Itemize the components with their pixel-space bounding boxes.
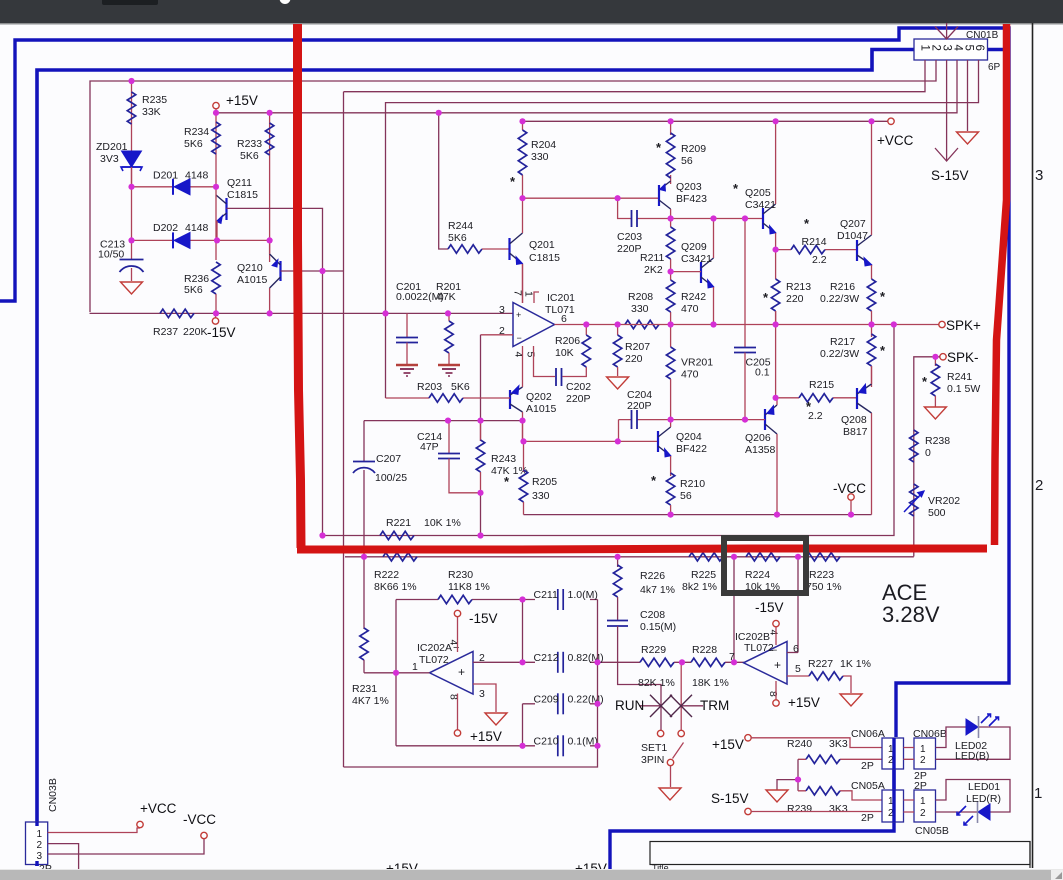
- junction (522.5,745.8): [519, 743, 525, 749]
- red marker right vertical: [995, 24, 1007, 545]
- wire R214 line: [776, 249, 857, 251]
- ground pin3: [485, 713, 507, 725]
- svg-text:CN01B: CN01B: [966, 30, 999, 41]
- junction (448,313.4): [445, 310, 451, 316]
- wire x343 vertical (pin1 net): [343, 92, 345, 767]
- toolbar button remnant: [102, 0, 158, 5]
- wire Q209 base: [671, 271, 701, 273]
- svg-text:1: 1: [1034, 785, 1042, 802]
- capacitor C212: [557, 652, 559, 673]
- svg-text:3.28V: 3.28V: [882, 602, 940, 627]
- wire pin4 to -15V: [775, 627, 777, 645]
- svg-text:R233: R233: [237, 138, 262, 150]
- junction (935.4,356.8): [932, 354, 938, 360]
- svg-text:8: 8: [767, 691, 779, 697]
- svg-text:R206: R206: [555, 335, 580, 347]
- svg-text:R224: R224: [745, 569, 770, 581]
- connector CN01B: [914, 39, 988, 60]
- svg-text:R214: R214: [802, 236, 827, 248]
- junction (734,556.8): [731, 554, 737, 560]
- svg-text:330: 330: [532, 490, 550, 502]
- resistor R236: [215, 187, 217, 260]
- wire Q211 emitter down: [216, 221, 218, 240]
- wire pin5 R227 line: [787, 676, 851, 693]
- svg-text:2P: 2P: [914, 780, 927, 792]
- svg-text:R238: R238: [925, 435, 950, 447]
- junction (871.5,324.5): [868, 321, 874, 327]
- svg-text:C207: C207: [376, 453, 401, 465]
- svg-text:5: 5: [963, 45, 975, 51]
- wire y421 line: [364, 420, 523, 422]
- connector CN05A: [882, 790, 904, 822]
- wire Q205 collector to +VCC: [775, 121, 777, 204]
- wire Q211 base right: [227, 208, 323, 535]
- ground pin5: [957, 132, 979, 144]
- svg-text:TL072: TL072: [744, 642, 774, 654]
- svg-text:R208: R208: [628, 291, 653, 303]
- node +VCC terminal: [888, 118, 894, 124]
- svg-text:B817: B817: [843, 426, 868, 438]
- resistor R213 column: [775, 250, 777, 279]
- svg-text:2: 2: [930, 45, 942, 51]
- svg-text:+: +: [516, 310, 521, 320]
- svg-text:0.22/3W: 0.22/3W: [820, 293, 859, 305]
- svg-text:2: 2: [920, 755, 926, 766]
- resistor R216 column: [871, 265, 873, 279]
- wire Q204 base line: [523, 440, 659, 442]
- svg-text:56: 56: [680, 490, 692, 502]
- svg-text:+15V: +15V: [470, 729, 502, 744]
- wire R240/R239 mid column: [797, 759, 799, 791]
- wire pin3 to ground: [473, 684, 496, 712]
- wire C202 loop: [534, 346, 587, 377]
- svg-text:R223: R223: [809, 569, 834, 581]
- wire -VCC rail y=515: [524, 514, 872, 516]
- svg-text:2: 2: [37, 840, 43, 851]
- svg-text:IC202A: IC202A: [417, 642, 452, 654]
- bus: outer loop left/top/right: [0, 28, 1009, 737]
- svg-text:1: 1: [920, 744, 926, 755]
- wire Q203 collector to C203 line: [670, 209, 672, 219]
- junction (385.5,313.4): [382, 310, 388, 316]
- svg-text:CN05A: CN05A: [851, 780, 885, 792]
- svg-text:R226: R226: [640, 570, 665, 582]
- svg-text:LED(R): LED(R): [966, 793, 1001, 805]
- junction (670.6,324.5): [668, 321, 674, 327]
- wire pin5 to ground: [967, 60, 969, 131]
- wire Q205 emitter to R214 node: [775, 233, 777, 250]
- svg-text:Q210: Q210: [237, 262, 263, 274]
- svg-text:5K6: 5K6: [184, 284, 203, 296]
- svg-text:82K 1%: 82K 1%: [638, 677, 675, 689]
- svg-text:220P: 220P: [566, 393, 591, 405]
- wire R235 column: [131, 81, 133, 187]
- wire pin3 S-15V arrow: [946, 60, 948, 160]
- transistor Q210 A1015: [270, 254, 281, 288]
- wire R215 line: [776, 397, 857, 399]
- junction (131.5,81): [128, 78, 134, 84]
- svg-text:+VCC: +VCC: [877, 133, 914, 148]
- op-amp IC201 TL071: [513, 303, 555, 347]
- node SPK- terminal: [940, 354, 946, 360]
- svg-text:R234: R234: [184, 126, 209, 138]
- wire C201 drop: [406, 313, 408, 337]
- transistor Q207 D1047: [857, 235, 872, 266]
- resistor R230: [438, 595, 472, 603]
- svg-text:5K6: 5K6: [184, 138, 203, 150]
- wire IC202A output: [364, 672, 430, 674]
- transistor Q201 C1815: [510, 233, 523, 265]
- svg-text:LED01: LED01: [968, 781, 1000, 793]
- svg-text:0.1: 0.1: [755, 367, 770, 379]
- svg-text:33K: 33K: [142, 106, 161, 118]
- svg-text:750 1%: 750 1%: [806, 581, 842, 593]
- svg-text:SPK+: SPK+: [946, 318, 981, 333]
- svg-text:5K6: 5K6: [448, 232, 467, 244]
- junction (617.6,556.8): [615, 554, 621, 560]
- connector CN06B: [914, 738, 936, 769]
- junction (798,779.6): [795, 777, 801, 783]
- wire pin4 lead to Q202: [522, 346, 524, 387]
- capacitor C210: [557, 735, 559, 756]
- wire R243 bottom to y535: [480, 493, 482, 536]
- resistor R223: [806, 553, 840, 561]
- junction (893.8,324.5): [891, 321, 897, 327]
- wire Q210 base right: [281, 270, 344, 272]
- wire SPK- line: [914, 357, 940, 557]
- wire C210 line: [396, 745, 598, 747]
- svg-text:56: 56: [681, 155, 693, 167]
- transistor Q202 A1015: [510, 386, 523, 413]
- resistor VR201 column: [670, 325, 672, 348]
- svg-text:RUN: RUN: [615, 698, 644, 713]
- svg-text:Q201: Q201: [529, 239, 555, 251]
- svg-text:Q207: Q207: [840, 218, 866, 230]
- bus: CN01B to right rail: [987, 48, 1009, 51]
- svg-text:6: 6: [561, 313, 567, 325]
- resistor R238: [910, 430, 918, 462]
- svg-text:C208: C208: [640, 609, 665, 621]
- svg-text:Q208: Q208: [841, 414, 867, 426]
- svg-text:A1015: A1015: [526, 403, 557, 415]
- diode D201: [173, 179, 190, 195]
- svg-text:1: 1: [919, 45, 931, 51]
- junction (448,420.6): [445, 418, 451, 424]
- svg-text:5K6: 5K6: [451, 381, 470, 393]
- junction (522.5,662.3): [519, 659, 525, 665]
- wire +15V stub: [215, 109, 217, 113]
- svg-text:4: 4: [952, 45, 964, 52]
- svg-text:470: 470: [681, 303, 699, 315]
- svg-text:0.15(M): 0.15(M): [640, 621, 676, 633]
- svg-text:2.2: 2.2: [812, 254, 827, 266]
- resistor R206: [585, 325, 587, 336]
- LED LED02: [966, 714, 999, 738]
- junction (480.5,492.8): [477, 490, 483, 496]
- resistor R225: [689, 553, 723, 561]
- junction (851,514.6): [848, 511, 854, 517]
- svg-text:10K 1%: 10K 1%: [424, 517, 461, 529]
- svg-text:R229: R229: [641, 644, 666, 656]
- resistor R237: [160, 309, 194, 317]
- bus: inner border to CN01B: [37, 50, 914, 867]
- junction (798,556.8): [795, 554, 801, 560]
- svg-text:+VCC: +VCC: [140, 801, 177, 816]
- svg-text:4148: 4148: [185, 170, 209, 182]
- svg-text:+15V: +15V: [788, 695, 820, 710]
- svg-text:Q206: Q206: [745, 432, 771, 444]
- svg-text:4: 4: [768, 630, 780, 636]
- title block: [650, 842, 1030, 865]
- wire R233 drop: [269, 113, 271, 262]
- junction (131.5,186.8): [128, 184, 134, 190]
- wire R213/R215 mid column: [775, 311, 777, 398]
- wire ZD201 to D-line: [131, 167, 133, 240]
- svg-text:4K7 1%: 4K7 1%: [352, 695, 389, 707]
- svg-text:C1815: C1815: [529, 252, 560, 264]
- svg-text:4148: 4148: [185, 222, 209, 234]
- wire pin4 (+15V rail): [216, 60, 957, 113]
- resistor R221: [380, 531, 414, 539]
- ground C213: [121, 282, 143, 294]
- wire Q208 emitter to -VCC rail: [871, 413, 873, 515]
- wire pin1 stub elbow: [534, 292, 539, 303]
- svg-text:R239: R239: [787, 803, 812, 815]
- wire pin8 to +15V: [775, 681, 777, 700]
- svg-text:R203: R203: [417, 381, 442, 393]
- svg-text:A1358: A1358: [745, 444, 776, 456]
- svg-text:2P: 2P: [861, 760, 874, 772]
- junction (682,662.3): [679, 659, 685, 665]
- wire LED01 loop: [936, 780, 1011, 813]
- top toolbar: [0, 0, 1063, 23]
- junction (216,313.4): [213, 310, 219, 316]
- wire -15V rail: [90, 312, 514, 314]
- junction (617.6,324.5): [615, 321, 621, 327]
- bus overlay through CN06A/CN05A: [892, 738, 895, 822]
- wire pin3 to -VCC: [48, 839, 204, 854]
- junction (522.5,121.3): [519, 118, 525, 124]
- switch TRM: [680, 662, 682, 730]
- svg-text:11K8 1%: 11K8 1%: [448, 581, 490, 593]
- switch lever: [673, 743, 684, 759]
- svg-text:6P: 6P: [988, 62, 1001, 73]
- junction (522.5,420.6): [519, 418, 525, 424]
- svg-text:3K3: 3K3: [829, 738, 848, 750]
- wire D202 line: [132, 239, 270, 241]
- svg-text:C210: C210: [534, 735, 559, 747]
- svg-text:C203: C203: [617, 231, 642, 243]
- svg-text:R244: R244: [448, 220, 473, 232]
- bus overlay through CN03B: [35, 822, 38, 866]
- junction (775.6,121.3): [773, 118, 779, 124]
- svg-text:Q209: Q209: [681, 241, 707, 253]
- resistor R231: [363, 557, 365, 629]
- ground R201: [438, 365, 460, 376]
- svg-text:3: 3: [941, 45, 953, 51]
- resistor R215: [799, 394, 833, 402]
- op-amp IC202B TL072: [744, 642, 788, 685]
- scrollbar arrow: [1055, 872, 1062, 879]
- svg-text:BF422: BF422: [676, 443, 707, 455]
- svg-text:470: 470: [681, 369, 699, 381]
- resistor R235: [127, 92, 135, 124]
- svg-text:6: 6: [793, 643, 799, 655]
- resistor R217 column: [871, 325, 873, 338]
- capacitor C204: [631, 410, 633, 429]
- resistor R228: [691, 658, 725, 666]
- svg-text:1: 1: [412, 661, 418, 673]
- svg-text:6: 6: [973, 45, 985, 51]
- svg-text:500: 500: [928, 507, 946, 519]
- svg-text:R235: R235: [142, 94, 167, 106]
- junction (775.6,397.8): [773, 395, 779, 401]
- transistor Q209 C3421: [701, 258, 714, 288]
- wire R230 line y599: [396, 599, 598, 601]
- resistor R242 column: [670, 272, 672, 325]
- svg-text:47P: 47P: [420, 441, 439, 453]
- junction (586.3,324.5): [583, 321, 589, 327]
- wire D201 line: [132, 186, 217, 188]
- wire pin6 from R224 tap: [787, 652, 798, 654]
- wire pin2 down: [48, 844, 79, 869]
- svg-text:18K 1%: 18K 1%: [692, 677, 729, 689]
- svg-text:-15V: -15V: [755, 600, 784, 615]
- junction (438.7,112.8): [436, 110, 442, 116]
- wire S-15V to CN05A pin2: [751, 811, 882, 813]
- wire pin1 to +VCC: [48, 828, 140, 833]
- resistor R241: [934, 357, 936, 366]
- svg-text:SPK-: SPK-: [947, 350, 979, 365]
- svg-text:A1015: A1015: [237, 274, 268, 286]
- svg-text:220K: 220K: [183, 326, 208, 338]
- wire C209 line: [523, 703, 598, 705]
- svg-text:R209: R209: [681, 143, 706, 155]
- asterisk marks: [504, 140, 928, 489]
- junction (734,662.3): [731, 659, 737, 665]
- wire pin1: [344, 60, 926, 92]
- transistor Q203 BF423: [659, 181, 671, 209]
- node S-15V terminal: [745, 808, 751, 814]
- capacitor C214: [448, 421, 450, 453]
- toolbar white circle remnant: [280, 0, 291, 4]
- svg-text:5: 5: [525, 352, 537, 358]
- svg-text:3: 3: [479, 688, 485, 700]
- junction (670.6,121.3): [668, 118, 674, 124]
- transistor Q211 C1815: [216, 195, 227, 224]
- capacitor C201: [396, 337, 418, 339]
- wire Q209 collector/emitter: [713, 219, 715, 325]
- wire C204 left drop: [618, 420, 620, 442]
- junction (745,218.5): [742, 215, 748, 221]
- junction (396,672.8): [393, 670, 399, 676]
- LED LED01: [957, 801, 990, 825]
- svg-text:CN06A: CN06A: [851, 728, 885, 740]
- ground mid: [766, 790, 788, 802]
- svg-text:4k7 1%: 4k7 1%: [640, 584, 675, 596]
- svg-text:R230: R230: [448, 569, 473, 581]
- wire pin2 line / C212 net: [473, 661, 744, 663]
- svg-text:R207: R207: [625, 341, 650, 353]
- svg-text:TRM: TRM: [700, 698, 729, 713]
- junction (670.6,514.6): [668, 511, 674, 517]
- wire +VCC rail: [523, 120, 889, 122]
- junction (775.6,324.5): [773, 321, 779, 327]
- junction (269.6,313.4): [267, 310, 273, 316]
- capacitor C207 (polarized): [363, 421, 365, 461]
- transistor Q205 C3421: [763, 204, 776, 234]
- wire cap bank left bus: [522, 600, 524, 746]
- svg-text:R227: R227: [808, 658, 833, 670]
- capacitor C203: [631, 210, 633, 227]
- svg-text:D202: D202: [153, 222, 178, 234]
- connector CN03B: [26, 822, 48, 865]
- svg-text:47K: 47K: [437, 291, 456, 303]
- svg-text:5K6: 5K6: [240, 150, 259, 162]
- transistor Q208 B817: [857, 384, 872, 413]
- svg-text:C211: C211: [534, 589, 558, 601]
- svg-text:D1047: D1047: [837, 230, 868, 242]
- svg-text:R217: R217: [830, 336, 855, 348]
- svg-text:R221: R221: [386, 517, 411, 529]
- junction (480.5,535.5): [477, 532, 483, 538]
- ground R227: [840, 694, 862, 706]
- wire R244 branch: [439, 113, 448, 249]
- wire row y557: [345, 556, 914, 558]
- junction (523.5,441.4): [520, 438, 526, 444]
- sheet frame right edge: [1032, 23, 1034, 868]
- capacitor C209: [557, 693, 559, 714]
- svg-text:0.1 5W: 0.1 5W: [947, 383, 980, 395]
- svg-text:C202: C202: [566, 381, 591, 393]
- svg-text:Q204: Q204: [676, 431, 702, 443]
- wire output rail y=325: [555, 324, 873, 326]
- op-amp IC202A TL072: [430, 642, 474, 694]
- svg-text:CN06B: CN06B: [913, 728, 947, 740]
- resistor R244: [448, 245, 482, 253]
- wire Q204 collector to node 420: [670, 420, 672, 427]
- svg-text:3: 3: [499, 304, 505, 316]
- svg-text:TL071: TL071: [545, 304, 575, 316]
- junction (131.5,240.4): [128, 237, 134, 243]
- wire R234 column: [215, 113, 217, 187]
- junction (216,112.8): [213, 110, 219, 116]
- svg-text:R215: R215: [809, 379, 834, 391]
- resistor R229: [640, 658, 674, 666]
- capacitor C213 (polarized): [131, 240, 133, 259]
- svg-text:1: 1: [37, 829, 43, 840]
- svg-text:−: −: [517, 333, 522, 343]
- resistor R226: [617, 557, 619, 567]
- svg-text:CN05B: CN05B: [915, 825, 949, 837]
- svg-text:Q211: Q211: [227, 177, 252, 189]
- svg-text:R242: R242: [681, 291, 706, 303]
- svg-text:-15V: -15V: [207, 325, 236, 340]
- svg-text:1.0(M): 1.0(M): [568, 589, 598, 601]
- svg-text:D201: D201: [153, 170, 178, 182]
- wire R244 to Q201 base: [482, 248, 510, 250]
- wire pin2: [90, 60, 936, 312]
- svg-text:Q205: Q205: [745, 187, 771, 199]
- wire feedback column x480: [480, 335, 482, 441]
- node SPK+: [872, 324, 939, 326]
- wire Q206 base line y420: [619, 419, 766, 421]
- svg-text:-15V: -15V: [469, 611, 498, 626]
- svg-text:10/50: 10/50: [98, 249, 124, 261]
- junction (597.5,745.8): [594, 743, 600, 749]
- ground C201: [396, 365, 418, 376]
- svg-text:R211: R211: [640, 252, 664, 264]
